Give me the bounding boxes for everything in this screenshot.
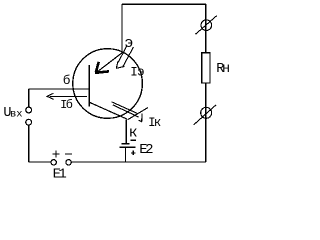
svg-text:э: э xyxy=(124,35,133,52)
svg-text:Iб: Iб xyxy=(60,98,73,112)
svg-text:Rн: Rн xyxy=(216,62,229,77)
svg-text:Iэ: Iэ xyxy=(130,66,144,80)
svg-text:Iк: Iк xyxy=(148,116,161,130)
svg-text:б: б xyxy=(63,73,71,88)
svg-text:к: к xyxy=(129,124,138,141)
svg-text:Uвх: Uвх xyxy=(3,106,22,121)
svg-text:E2: E2 xyxy=(139,142,153,158)
svg-text:E1: E1 xyxy=(53,166,67,182)
